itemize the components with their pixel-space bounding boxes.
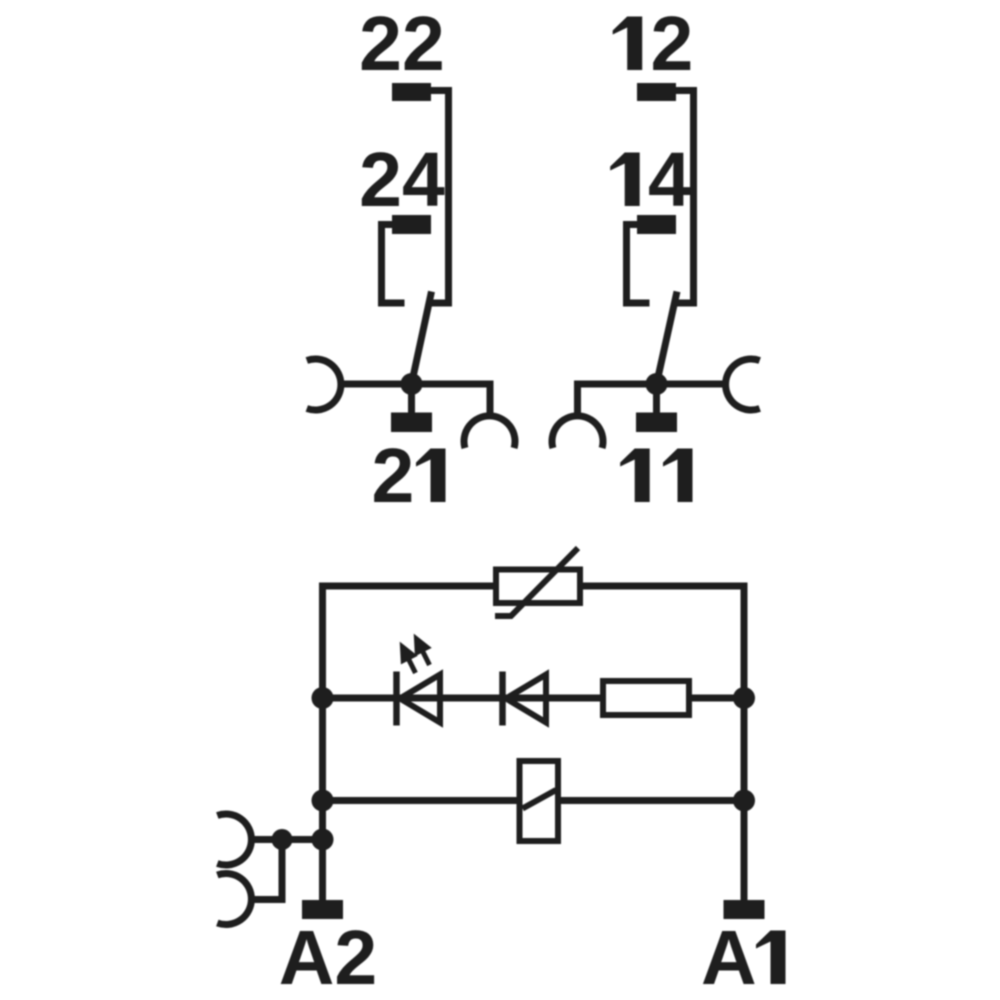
svg-text:2: 2 bbox=[372, 433, 415, 519]
svg-text:A: A bbox=[701, 915, 757, 1000]
svg-text:22: 22 bbox=[359, 1, 445, 87]
svg-text:4: 4 bbox=[648, 137, 691, 223]
svg-text:24: 24 bbox=[359, 137, 445, 223]
svg-text:2: 2 bbox=[651, 1, 694, 87]
svg-text:A2: A2 bbox=[279, 915, 377, 1000]
